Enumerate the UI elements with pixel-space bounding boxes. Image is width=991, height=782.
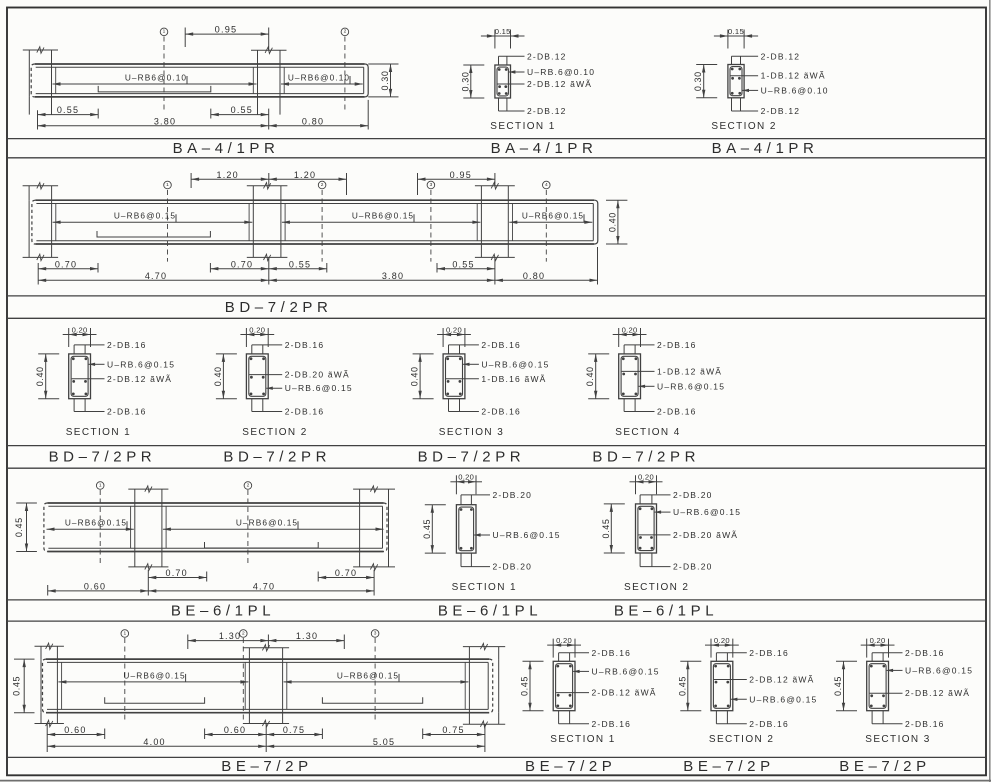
section BD-7/2PR S3 cross-section outline: [443, 354, 465, 399]
svg-text:2-DB.12: 2-DB.12: [761, 51, 801, 61]
section BE-6/1PL S1 beam continuation lines: [461, 495, 471, 567]
section BE-7/2P S3 beam continuation lines: [872, 653, 883, 724]
band 4 title row rule top: [7, 599, 986, 601]
beam BD-7/2PR grid line 1: [164, 181, 172, 261]
svg-text:2-DB.16: 2-DB.16: [749, 719, 789, 729]
svg-text:0.80: 0.80: [523, 271, 545, 281]
title BE-6/1PL (section 1): [438, 602, 542, 619]
beam BD-7/2PR span 3 stirrup label U-RB6@0.15: [509, 211, 592, 224]
svg-text:U–RB.6@0.15: U–RB.6@0.15: [905, 665, 973, 675]
section BD-7/2PR S4 caption SECTION 4: [615, 427, 680, 438]
section BD-7/2PR S2 beam continuation lines: [252, 345, 263, 412]
title BA-4/1PR (section 1): [491, 140, 598, 157]
svg-text:BE–7/2P: BE–7/2P: [525, 758, 616, 775]
section BE-6/1PL S2 rebar dots: [639, 507, 654, 549]
svg-text:0.70: 0.70: [231, 259, 253, 269]
section BD-7/2PR S2 caption SECTION 2: [242, 427, 307, 438]
section BE-7/2P S2 width dim 0.20: [705, 636, 739, 658]
svg-text:SECTION 2: SECTION 2: [624, 582, 689, 593]
beam BE-7/2P span 2 bottom bar bracket: [322, 697, 422, 703]
section BD-7/2PR S1 beam continuation lines: [74, 345, 85, 412]
svg-text:U–RB.6@0.15: U–RB.6@0.15: [481, 359, 549, 369]
section BA-4/1PR S2 height dim 0.30: [693, 65, 717, 98]
beam BE-7/2P top dim 1.30 b: [268, 631, 344, 649]
svg-text:4.70: 4.70: [253, 582, 275, 592]
svg-text:0.45: 0.45: [677, 676, 687, 696]
svg-text:1: 1: [166, 182, 169, 188]
svg-text:U–RB.6@0.15: U–RB.6@0.15: [673, 507, 741, 517]
svg-text:3.80: 3.80: [382, 271, 404, 281]
svg-text:2-DB.12 ãWÃ: 2-DB.12 ãWÃ: [592, 688, 657, 698]
section BD-7/2PR S4 height dim 0.40: [585, 354, 609, 399]
beam BE-7/2P span 1 stirrup label U-RB6@0.15: [58, 670, 248, 683]
svg-text:1: 1: [123, 630, 126, 636]
beam BD-7/2PR bottom dim 3.80: [269, 271, 495, 282]
section BE-6/1PL S2 cross-section outline: [636, 504, 657, 553]
section BD-7/2PR S3 height dim 0.40: [410, 354, 434, 399]
section BD-7/2PR S1 height dim 0.40: [35, 354, 59, 399]
svg-text:2-DB.16: 2-DB.16: [107, 407, 147, 417]
svg-text:U–RB.6@0.15: U–RB.6@0.15: [749, 694, 817, 704]
section BE-6/1PL S2 caption SECTION 2: [624, 582, 689, 593]
svg-text:1.30: 1.30: [219, 631, 241, 641]
svg-text:U–RB6@0.15: U–RB6@0.15: [123, 670, 185, 680]
section BD-7/2PR S3 beam continuation lines: [449, 345, 460, 412]
band 3 title row rule top: [7, 445, 986, 447]
svg-text:2: 2: [247, 482, 250, 488]
svg-text:2: 2: [242, 630, 245, 636]
svg-text:2-DB.20: 2-DB.20: [673, 490, 713, 500]
svg-text:U–RB6@0.10: U–RB6@0.10: [288, 72, 350, 82]
section BA-4/1PR S1 cross-section outline: [495, 65, 511, 98]
section BD-7/2PR S2 height dim 0.40: [213, 354, 237, 399]
svg-text:0.20: 0.20: [446, 325, 462, 334]
section BD-7/2PR S3 width dim 0.20: [437, 325, 471, 347]
beam BA-4/1PR span 2 stirrup label U-RB6@0.10: [281, 72, 363, 85]
svg-text:2-DB.16: 2-DB.16: [592, 719, 632, 729]
beam BE-6/1PL span 1 stirrup label U-RB6@0.15: [47, 518, 134, 531]
svg-text:0.30: 0.30: [380, 71, 390, 91]
section BD-7/2PR S4 cross-section outline: [619, 354, 641, 399]
svg-text:BD–7/2PR: BD–7/2PR: [223, 449, 331, 466]
svg-text:0.60: 0.60: [84, 582, 106, 592]
svg-text:BA–4/1PR: BA–4/1PR: [712, 140, 819, 157]
svg-text:SECTION 2: SECTION 2: [709, 734, 774, 745]
beam BA-4/1PR top dimension 0.95: [185, 25, 269, 51]
beam BA-4/1PR height dim 0.30: [368, 64, 398, 97]
section BE-7/2P S1 rebar dots: [556, 665, 571, 708]
section BE-6/1PL S2 label 2-DB.20: [640, 490, 712, 500]
section BE-7/2P S2 label 2-DB.16: [716, 648, 788, 658]
title BD-7/2PR (section 2): [223, 449, 331, 466]
section BE-6/1PL S1 caption SECTION 1: [452, 582, 517, 593]
section BD-7/2PR S2 label 2-DB.16: [252, 407, 324, 417]
section BD-7/2PR S3 caption SECTION 3: [439, 427, 504, 438]
section BA-4/1PR S2 label U&#8211;RB.6@0.10: [743, 85, 829, 95]
beam BA-4/1PR span 1 stirrup label U-RB6@0.10: [53, 72, 257, 85]
beam BD-7/2PR column 1 through/below: [23, 200, 59, 260]
svg-text:0.40: 0.40: [585, 366, 595, 386]
svg-text:2-DB.12 ãWÃ: 2-DB.12 ãWÃ: [107, 374, 172, 384]
beam BD-7/2PR bottom dim 0.80: [495, 247, 598, 285]
beam BA-4/1PR body: [31, 64, 368, 97]
beam BA-4/1PR bottom dim 0.80: [269, 100, 369, 130]
section BD-7/2PR S4 rebar dots: [622, 357, 637, 395]
svg-text:0.75: 0.75: [283, 725, 305, 735]
beam BE-7/2P column 3 through/below: [463, 659, 505, 727]
svg-text:0.45: 0.45: [833, 676, 843, 696]
svg-text:2: 2: [344, 29, 347, 35]
section BA-4/1PR S1 label 2-DB.12: [499, 106, 567, 116]
beam BE-7/2P bottom dim 0.60 b: [205, 724, 267, 753]
title BE-7/2P (elevation): [221, 758, 312, 775]
title BE-7/2P (section 1): [525, 758, 616, 775]
title BE-7/2P (section 2): [683, 758, 774, 775]
beam BD-7/2PR span 2 stirrup label U-RB6@0.15: [282, 211, 481, 224]
svg-text:2-DB.16: 2-DB.16: [107, 340, 147, 350]
svg-text:2-DB.16: 2-DB.16: [657, 407, 697, 417]
section BD-7/2PR S4 label 2-DB.16: [624, 407, 696, 417]
section BE-7/2P S3 label U&#8211;RB.6@0.15: [887, 665, 974, 675]
title BD-7/2PR (elevation): [225, 299, 333, 316]
beam BE-6/1PL bottom dim 4.70: [148, 582, 374, 593]
beam BD-7/2PR column 3 above: [475, 183, 515, 201]
svg-text:0.20: 0.20: [638, 473, 654, 482]
svg-text:1-DB.12 ãWÃ: 1-DB.12 ãWÃ: [761, 71, 826, 81]
section BE-7/2P S1 height dim 0.45: [520, 661, 544, 710]
section BD-7/2PR S1 rebar dots: [72, 357, 87, 395]
svg-text:4.70: 4.70: [145, 271, 167, 281]
svg-text:3: 3: [374, 630, 377, 636]
svg-text:0.20: 0.20: [622, 325, 638, 334]
section BA-4/1PR S1 label 2-DB.12 &#227;W&#195;: [498, 79, 593, 89]
svg-text:3.80: 3.80: [154, 116, 176, 126]
section BE-6/1PL S2 width dim 0.20: [630, 473, 663, 495]
band 2 title row rule top: [7, 295, 986, 297]
beam BA-4/1PR bottom dim 0.55 right: [211, 105, 269, 129]
beam BD-7/2PR height dim 0.40: [606, 200, 627, 244]
band 1 title row rule top: [7, 138, 986, 140]
svg-text:2-DB.20 ãWÃ: 2-DB.20 ãWÃ: [673, 530, 738, 540]
beam BD-7/2PR column 2 above: [247, 183, 288, 201]
section BE-7/2P S1 label 2-DB.16: [559, 648, 631, 658]
svg-text:SECTION 4: SECTION 4: [615, 427, 680, 438]
section BE-7/2P S2 height dim 0.45: [677, 661, 701, 710]
svg-text:2-DB.16: 2-DB.16: [285, 340, 325, 350]
beam BD-7/2PR span 1 stirrup label U-RB6@0.15: [53, 211, 253, 224]
svg-text:0.70: 0.70: [55, 259, 77, 269]
beam BD-7/2PR column 1 above: [23, 183, 59, 201]
svg-text:BE–6/1PL: BE–6/1PL: [438, 602, 542, 619]
section BD-7/2PR S1 label 2-DB.12 &#227;W&#195;: [72, 374, 173, 384]
svg-text:1: 1: [99, 482, 102, 488]
title BE-7/2P (section 3): [839, 758, 930, 775]
svg-text:1.20: 1.20: [294, 170, 316, 180]
beam BD-7/2PR column 2 through/below: [247, 200, 288, 260]
svg-text:2-DB.12: 2-DB.12: [527, 106, 567, 116]
section BD-7/2PR S2 width dim 0.20: [240, 325, 274, 347]
section BD-7/2PR S1 cross-section outline: [69, 354, 91, 399]
svg-text:U–RB.6@0.15: U–RB.6@0.15: [107, 359, 175, 369]
title BD-7/2PR (section 4): [592, 449, 700, 466]
svg-text:U–RB6@0.15: U–RB6@0.15: [337, 670, 399, 680]
section BD-7/2PR S4 label U&#8211;RB.6@0.15: [639, 381, 726, 391]
beam BD-7/2PR top dim 1.20 b: [269, 170, 347, 195]
section BD-7/2PR S1 label 2-DB.16: [74, 340, 146, 350]
paper bottom edge: [0, 780, 991, 782]
svg-text:0.55: 0.55: [231, 105, 253, 115]
svg-text:1.30: 1.30: [296, 631, 318, 641]
svg-text:2-DB.12 ãWÃ: 2-DB.12 ãWÃ: [905, 688, 970, 698]
svg-text:2-DB.12 ãWÃ: 2-DB.12 ãWÃ: [749, 675, 814, 685]
svg-text:1-DB.16 ãWÃ: 1-DB.16 ãWÃ: [481, 374, 546, 384]
section BD-7/2PR S4 beam continuation lines: [624, 345, 635, 412]
section BE-7/2P S1 width dim 0.20: [547, 636, 581, 658]
section BE-6/1PL S2 beam continuation lines: [640, 495, 652, 567]
svg-text:0.55: 0.55: [452, 259, 474, 269]
section BE-7/2P S3 label 2-DB.12 &#227;W&#195;: [870, 688, 971, 698]
beam BE-6/1PL column 2 through/below: [353, 503, 395, 570]
beam BE-6/1PL bottom dim 0.70 b: [318, 568, 374, 595]
section BA-4/1PR S1 height dim 0.30: [460, 65, 484, 98]
section BD-7/2PR S3 label 1-DB.16 &#227;W&#195;: [446, 374, 547, 384]
band 3 title row rule bottom: [7, 467, 986, 469]
section BE-7/2P S3 cross-section outline: [867, 661, 889, 710]
svg-text:0.15: 0.15: [728, 27, 744, 36]
title BD-7/2PR (section 3): [418, 449, 526, 466]
svg-text:2-DB.16: 2-DB.16: [592, 648, 632, 658]
section BE-7/2P S1 label 2-DB.16: [559, 719, 631, 729]
svg-text:U–RB6@0.15: U–RB6@0.15: [352, 211, 414, 221]
section BE-6/1PL S1 cross-section outline: [456, 505, 476, 553]
svg-text:BD–7/2PR: BD–7/2PR: [225, 299, 333, 316]
beam BA-4/1PR middle column above: [251, 47, 287, 64]
band 5 title row rule top: [7, 756, 986, 758]
svg-text:0.45: 0.45: [14, 517, 24, 537]
section BD-7/2PR S2 cross-section outline: [246, 354, 268, 399]
beam BE-6/1PL bottom bar bracket: [205, 542, 319, 548]
section BE-7/2P S2 caption SECTION 2: [709, 734, 774, 745]
svg-text:0.20: 0.20: [556, 636, 572, 645]
svg-text:BE–6/1PL: BE–6/1PL: [614, 602, 718, 619]
svg-text:3: 3: [430, 182, 433, 188]
svg-text:U–RB.6@0.15: U–RB.6@0.15: [285, 383, 353, 393]
title BE-6/1PL (elevation): [171, 602, 275, 619]
beam BE-7/2P bottom dim 0.60 a: [47, 724, 104, 753]
section BA-4/1PR S2 caption SECTION 2: [711, 121, 776, 132]
svg-text:BE–6/1PL: BE–6/1PL: [171, 602, 275, 619]
section BE-7/2P S1 cross-section outline: [553, 661, 575, 710]
beam BA-4/1PR bottom dim 0.55 left: [38, 105, 99, 129]
beam BE-7/2P body: [43, 659, 493, 713]
svg-text:0.20: 0.20: [249, 325, 265, 334]
section BD-7/2PR S1 caption SECTION 1: [66, 427, 131, 438]
svg-text:U–RB.6@0.10: U–RB.6@0.10: [527, 67, 595, 77]
svg-text:2-DB.16: 2-DB.16: [657, 340, 697, 350]
section BE-7/2P S2 label 2-DB.12 &#227;W&#195;: [714, 675, 815, 685]
svg-text:2-DB.20: 2-DB.20: [493, 490, 533, 500]
svg-text:BA–4/1PR: BA–4/1PR: [173, 140, 280, 157]
svg-text:0.20: 0.20: [870, 636, 886, 645]
svg-text:0.45: 0.45: [12, 676, 22, 696]
section BA-4/1PR S2 label 2-DB.12: [732, 106, 801, 116]
beam BE-7/2P column 1 above: [35, 643, 64, 659]
section BA-4/1PR S2 beam continuation lines: [732, 56, 741, 111]
beam BE-7/2P bottom dim 0.75 b: [423, 724, 485, 752]
svg-text:0.55: 0.55: [289, 259, 311, 269]
section BA-4/1PR S1 label U&#8211;RB.6@0.10: [509, 67, 595, 77]
section BE-6/1PL S1 rebar dots: [460, 508, 473, 550]
svg-text:0.95: 0.95: [450, 170, 472, 180]
svg-text:2-DB.20: 2-DB.20: [493, 562, 533, 572]
beam BD-7/2PR grid line 2: [318, 181, 326, 261]
beam BD-7/2PR bottom dim 0.70 b: [210, 257, 268, 284]
svg-text:2-DB.12: 2-DB.12: [527, 51, 567, 61]
section BE-7/2P S3 rebar dots: [870, 665, 885, 708]
section BE-6/1PL S1 label 2-DB.20: [461, 490, 532, 500]
section BD-7/2PR S3 rebar dots: [446, 357, 461, 395]
beam BA-4/1PR bottom dim 3.80: [38, 116, 269, 127]
svg-text:0.45: 0.45: [422, 519, 432, 539]
section BD-7/2PR S2 label 2-DB.20 &#227;W&#195;: [249, 370, 350, 380]
svg-text:U–RB6@0.15: U–RB6@0.15: [114, 211, 176, 221]
svg-text:0.40: 0.40: [607, 212, 617, 232]
svg-text:0.80: 0.80: [302, 116, 324, 126]
section BE-7/2P S2 beam continuation lines: [716, 653, 727, 724]
title BA-4/1PR (section 2): [712, 140, 819, 157]
beam BE-6/1PL height dim 0.45 left: [14, 503, 37, 552]
beam BE-6/1PL column 1 above: [128, 486, 168, 503]
section BD-7/2PR S4 width dim 0.20: [613, 325, 647, 347]
svg-text:BA–4/1PR: BA–4/1PR: [491, 140, 598, 157]
title BE-6/1PL (section 2): [614, 602, 718, 619]
beam BD-7/2PR bottom bar bracket: [97, 231, 210, 237]
svg-text:SECTION 2: SECTION 2: [242, 427, 307, 438]
section BE-7/2P S1 beam continuation lines: [559, 653, 570, 724]
svg-text:2-DB.20: 2-DB.20: [673, 562, 713, 572]
section BE-7/2P S3 height dim 0.45: [833, 661, 857, 710]
section BE-7/2P S1 label 2-DB.12 &#227;W&#195;: [556, 688, 657, 698]
svg-text:1.20: 1.20: [217, 170, 239, 180]
beam BE-7/2P span 1 bottom bar bracket: [105, 697, 205, 703]
band 4 title row rule bottom: [7, 620, 986, 622]
beam BD-7/2PR top dim 1.20 a: [191, 170, 269, 188]
beam BA-4/1PR middle column through/below: [258, 64, 281, 115]
section BA-4/1PR S1 beam continuation lines: [499, 56, 507, 111]
beam BD-7/2PR grid line 3: [427, 181, 435, 261]
section BD-7/2PR S3 label 2-DB.16: [449, 340, 521, 350]
svg-text:0.20: 0.20: [714, 636, 730, 645]
beam BE-6/1PL column 1 through/below: [128, 503, 168, 570]
beam BE-6/1PL column 2 above: [353, 486, 395, 503]
section BE-6/1PL S2 label 2-DB.20 &#227;W&#195;: [638, 530, 738, 540]
section BE-7/2P S2 rebar dots: [714, 665, 729, 708]
svg-text:U–RB.6@0.15: U–RB.6@0.15: [592, 666, 660, 676]
svg-text:0.30: 0.30: [693, 71, 703, 91]
beam BE-7/2P bottom dim 0.75 a: [266, 725, 322, 739]
beam BE-7/2P column 2 through/below: [243, 659, 289, 727]
svg-text:1-DB.12 ãWÃ: 1-DB.12 ãWÃ: [657, 366, 722, 376]
beam BD-7/2PR top dim 0.95: [418, 170, 495, 195]
section BA-4/1PR S2 label 2-DB.12: [732, 51, 801, 61]
beam BD-7/2PR body: [32, 200, 598, 244]
section BE-7/2P S2 label U&#8211;RB.6@0.15: [731, 694, 818, 704]
beam BE-6/1PL bottom dim 0.60: [48, 582, 149, 596]
svg-text:2-DB.16: 2-DB.16: [905, 648, 945, 658]
svg-text:2: 2: [321, 182, 324, 188]
svg-text:0.60: 0.60: [224, 725, 246, 735]
beam BD-7/2PR grid line 4: [543, 181, 551, 261]
beam BE-7/2P grid line 3: [371, 630, 379, 722]
svg-text:0.55: 0.55: [57, 105, 79, 115]
svg-text:0.60: 0.60: [64, 725, 86, 735]
beam BA-4/1PR left column through/below: [29, 64, 51, 115]
beam BE-7/2P grid line 1: [121, 630, 129, 722]
svg-text:U–RB6@0.15: U–RB6@0.15: [236, 518, 298, 528]
section BD-7/2PR S1 label 2-DB.16: [74, 407, 146, 417]
section BA-4/1PR S1 width dim 0.15: [481, 27, 525, 49]
beam BA-4/1PR bottom bar bracket: [98, 86, 211, 92]
section BE-7/2P S3 label 2-DB.16: [872, 719, 944, 729]
svg-text:SECTION 1: SECTION 1: [452, 582, 517, 593]
title BA-4/1PR (elevation): [173, 140, 280, 157]
beam BE-7/2P span 2 stirrup label U-RB6@0.15: [284, 670, 469, 683]
section BD-7/2PR S2 label 2-DB.16: [252, 340, 324, 350]
svg-text:0.30: 0.30: [460, 72, 470, 92]
section BE-6/1PL S1 label U&#8211;RB.6@0.15: [474, 530, 561, 540]
svg-text:U–RB6@0.10: U–RB6@0.10: [125, 72, 187, 82]
beam BE-7/2P height dim 0.45 left: [12, 659, 35, 713]
svg-text:0.40: 0.40: [213, 366, 223, 386]
svg-text:0.20: 0.20: [72, 325, 88, 334]
band 2 title row rule bottom: [7, 317, 986, 319]
section BD-7/2PR S3 label 2-DB.16: [449, 407, 521, 417]
section BD-7/2PR S2 label U&#8211;RB.6@0.15: [266, 383, 353, 393]
beam BD-7/2PR bottom dim 0.55 b: [437, 257, 495, 284]
section BD-7/2PR S1 width dim 0.20: [63, 325, 97, 347]
section BE-6/1PL S1 width dim 0.20: [450, 473, 482, 495]
svg-text:U–RB.6@0.15: U–RB.6@0.15: [493, 530, 561, 540]
svg-text:SECTION 3: SECTION 3: [865, 734, 930, 745]
section BE-7/2P S1 label U&#8211;RB.6@0.15: [573, 666, 660, 676]
beam BE-6/1PL grid line 1: [96, 482, 104, 563]
section BA-4/1PR S2 width dim 0.15: [714, 27, 758, 49]
svg-text:2-DB.16: 2-DB.16: [481, 340, 521, 350]
beam BD-7/2PR column 3 through/below: [475, 200, 515, 260]
beam BE-7/2P column 1 through/below: [35, 659, 64, 727]
section BE-7/2P S2 cross-section outline: [711, 661, 733, 710]
beam BE-7/2P column 2 above: [243, 645, 289, 660]
svg-text:2-DB.16: 2-DB.16: [905, 719, 945, 729]
section BA-4/1PR S2 label 1-DB.12 &#227;W&#195;: [731, 71, 826, 81]
svg-text:SECTION 1: SECTION 1: [550, 734, 615, 745]
svg-text:0.40: 0.40: [35, 366, 45, 386]
svg-text:2-DB.20 ãWÃ: 2-DB.20 ãWÃ: [285, 370, 350, 380]
beam BD-7/2PR bottom dim 4.70: [38, 271, 269, 282]
svg-text:0.75: 0.75: [442, 725, 464, 735]
svg-text:SECTION 2: SECTION 2: [711, 121, 776, 132]
svg-text:U–RB.6@0.15: U–RB.6@0.15: [657, 381, 725, 391]
section BD-7/2PR S3 label U&#8211;RB.6@0.15: [463, 359, 550, 369]
beam BE-7/2P grid line 2: [240, 630, 248, 722]
section BE-6/1PL S2 label 2-DB.20: [640, 562, 712, 572]
beam BD-7/2PR bottom dim 0.70 a: [38, 259, 98, 284]
beam BE-6/1PL grid line 2: [244, 482, 252, 563]
svg-text:2-DB.12: 2-DB.12: [761, 106, 801, 116]
svg-text:U–RB.6@0.10: U–RB.6@0.10: [761, 85, 829, 95]
svg-text:0.40: 0.40: [410, 366, 420, 386]
beam BE-6/1PL body: [44, 503, 387, 552]
